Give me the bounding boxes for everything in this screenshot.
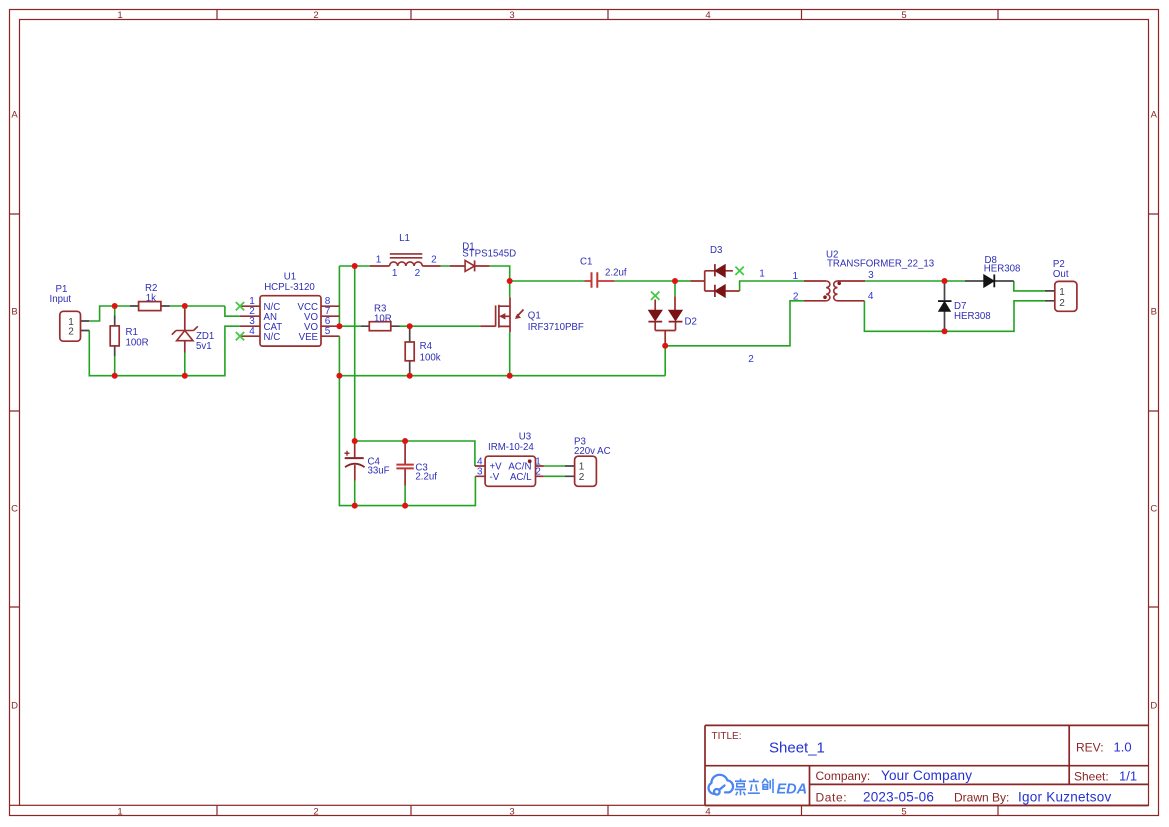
svg-text:100k: 100k (420, 353, 441, 364)
svg-text:Sheet_1: Sheet_1 (769, 740, 825, 757)
svg-text:1: 1 (1059, 287, 1065, 298)
svg-text:4: 4 (705, 807, 710, 818)
svg-text:L1: L1 (399, 233, 410, 244)
svg-text:1: 1 (759, 268, 765, 279)
svg-text:2: 2 (415, 268, 421, 279)
svg-text:Igor Kuznetsov: Igor Kuznetsov (1018, 789, 1112, 804)
svg-text:IRM-10-24: IRM-10-24 (488, 442, 534, 453)
svg-text:-V: -V (490, 472, 500, 483)
svg-text:2: 2 (431, 255, 437, 266)
svg-text:C: C (11, 504, 18, 515)
svg-text:HER308: HER308 (954, 311, 991, 322)
svg-text:1: 1 (117, 10, 122, 21)
svg-text:1k: 1k (146, 293, 156, 304)
svg-text:3: 3 (509, 807, 514, 818)
svg-text:STPS1545D: STPS1545D (462, 249, 516, 260)
svg-text:C1: C1 (580, 257, 592, 268)
svg-text:HCPL-3120: HCPL-3120 (264, 282, 315, 293)
svg-text:2023-05-06: 2023-05-06 (863, 789, 934, 804)
svg-text:D: D (11, 701, 18, 712)
svg-text:1: 1 (579, 461, 585, 472)
svg-text:Your Company: Your Company (881, 768, 972, 783)
svg-text:A: A (1151, 110, 1158, 121)
svg-text:2: 2 (793, 291, 799, 302)
svg-text:2: 2 (313, 807, 318, 818)
svg-text:Q1: Q1 (528, 310, 541, 321)
svg-text:1: 1 (376, 255, 382, 266)
svg-text:Company:: Company: (816, 769, 871, 783)
svg-text:5v1: 5v1 (196, 341, 212, 352)
svg-text:Input: Input (50, 294, 72, 305)
svg-text:1.0: 1.0 (1114, 740, 1132, 755)
svg-text:4: 4 (705, 10, 710, 21)
svg-text:B: B (1151, 307, 1157, 318)
svg-text:5: 5 (901, 807, 906, 818)
svg-text:VEE: VEE (299, 332, 319, 343)
svg-text:2: 2 (313, 10, 318, 21)
svg-text:Out: Out (1053, 269, 1069, 280)
svg-text:220v AC: 220v AC (574, 446, 611, 457)
svg-text:1: 1 (117, 807, 122, 818)
svg-text:R1: R1 (126, 327, 138, 338)
svg-text:N/C: N/C (264, 332, 281, 343)
svg-text:1/1: 1/1 (1119, 769, 1137, 784)
svg-text:33uF: 33uF (368, 466, 390, 477)
svg-text:IRF3710PBF: IRF3710PBF (528, 322, 584, 333)
svg-text:U3: U3 (519, 432, 531, 443)
svg-text:2: 2 (1059, 298, 1065, 309)
svg-text:10R: 10R (374, 314, 392, 325)
svg-text:AC/L: AC/L (510, 472, 532, 483)
svg-text:U1: U1 (284, 272, 296, 283)
svg-text:HER308: HER308 (984, 264, 1021, 275)
svg-text:2.2uf: 2.2uf (415, 471, 437, 482)
svg-text:A: A (11, 110, 18, 121)
svg-text:Date:: Date: (816, 790, 848, 804)
svg-text:R4: R4 (420, 341, 433, 352)
svg-text:B: B (11, 307, 17, 318)
svg-text:1: 1 (392, 268, 398, 279)
svg-text:D3: D3 (710, 245, 722, 256)
svg-text:3: 3 (868, 270, 874, 281)
svg-text:REV:: REV: (1076, 741, 1104, 755)
svg-text:2.2uf: 2.2uf (605, 268, 627, 279)
svg-text:2: 2 (579, 472, 585, 483)
svg-text:Sheet:: Sheet: (1074, 770, 1109, 784)
svg-text:C: C (1150, 504, 1157, 515)
svg-text:2: 2 (748, 354, 754, 365)
svg-text:TRANSFORMER_22_13: TRANSFORMER_22_13 (827, 259, 934, 270)
svg-text:2: 2 (535, 467, 541, 478)
svg-text:1: 1 (793, 271, 799, 282)
svg-text:4: 4 (868, 291, 874, 302)
svg-text:Drawn By:: Drawn By: (954, 790, 1009, 804)
svg-text:4: 4 (249, 326, 255, 337)
svg-text:EDA: EDA (777, 781, 808, 797)
svg-text:3: 3 (509, 10, 514, 21)
svg-text:D: D (1150, 701, 1157, 712)
svg-text:2: 2 (68, 326, 74, 337)
svg-text:D2: D2 (685, 317, 697, 328)
svg-text:5: 5 (901, 10, 906, 21)
svg-text:TITLE:: TITLE: (712, 731, 742, 742)
svg-text:100R: 100R (126, 338, 149, 349)
svg-text:5: 5 (325, 326, 331, 337)
svg-text:3: 3 (477, 467, 483, 478)
